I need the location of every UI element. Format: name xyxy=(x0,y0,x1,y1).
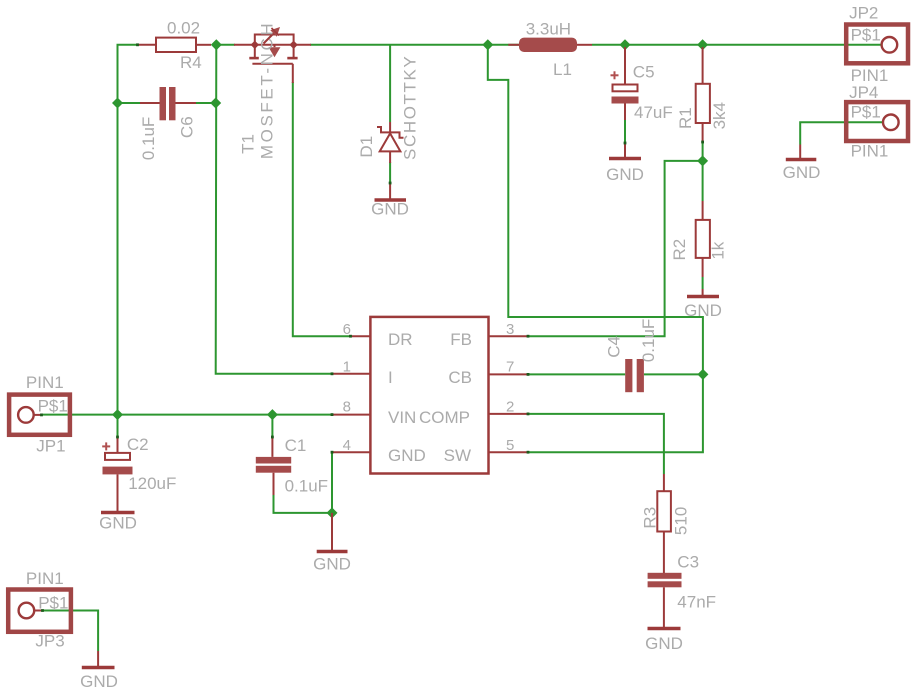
connector JP3 xyxy=(8,569,71,651)
svg-text:C4: C4 xyxy=(605,336,624,358)
wire GND pin 4 down xyxy=(331,452,333,513)
svg-text:R3: R3 xyxy=(640,507,659,529)
svg-text:P$1: P$1 xyxy=(851,103,881,122)
capacitor C6 xyxy=(140,87,196,120)
inductor L1 xyxy=(508,38,592,52)
wire R3 bottom to C3 xyxy=(663,532,665,574)
junction C4 right / SW xyxy=(697,369,708,380)
svg-text:P$1: P$1 xyxy=(38,397,68,416)
svg-text:47nF: 47nF xyxy=(677,593,716,612)
svg-text:5: 5 xyxy=(506,437,514,454)
svg-text:COMP: COMP xyxy=(419,408,470,427)
svg-text:JP1: JP1 xyxy=(36,437,65,456)
svg-text:JP3: JP3 xyxy=(35,632,64,651)
resistor R2 xyxy=(696,201,710,277)
capacitor C3 xyxy=(648,573,682,588)
wire R4 node down to I pin 1 xyxy=(216,45,332,374)
ground JP3 xyxy=(97,651,99,666)
wire R4 to MOSFET xyxy=(216,44,235,46)
transistor T1 (MOSFET-NCH) xyxy=(234,27,311,83)
svg-text:GND: GND xyxy=(645,634,683,653)
ground R2 xyxy=(687,295,719,299)
connector JP4 xyxy=(846,83,908,161)
svg-text:3.3uH: 3.3uH xyxy=(526,20,571,39)
wire C1 bottom to GND junction xyxy=(274,495,333,513)
svg-text:C6: C6 xyxy=(178,116,197,138)
svg-text:510: 510 xyxy=(672,507,691,535)
capacitor C4 xyxy=(625,359,644,392)
svg-text:C3: C3 xyxy=(677,553,699,572)
wire MOSFET to L1 xyxy=(310,44,519,46)
wire FB pin 3 to divider junction xyxy=(528,161,703,336)
junction R1 top xyxy=(697,39,708,50)
wire JP4 to GND xyxy=(800,122,883,144)
svg-text:C1: C1 xyxy=(285,436,307,455)
wire R1 bottom green xyxy=(702,142,704,161)
svg-text:R1: R1 xyxy=(676,107,695,129)
resistor R4 xyxy=(138,38,212,52)
svg-text:JP4: JP4 xyxy=(849,83,878,102)
svg-text:C5: C5 xyxy=(633,63,655,82)
svg-text:1: 1 xyxy=(343,359,351,376)
wire C2 top stub green xyxy=(117,415,119,437)
junction C6 left xyxy=(112,98,123,109)
svg-text:1k: 1k xyxy=(709,241,728,259)
svg-text:0.1uF: 0.1uF xyxy=(285,477,328,496)
svg-text:47uF: 47uF xyxy=(634,103,673,122)
junction R4 right xyxy=(211,39,222,50)
pin 8 VIN stub xyxy=(332,414,370,416)
wire top-left corner to R4 xyxy=(118,45,138,415)
svg-text:CB: CB xyxy=(448,368,472,387)
wire C6 left xyxy=(118,102,141,104)
ground net C1/pin4 xyxy=(331,513,333,550)
wire joints (pin tips) xyxy=(527,335,530,338)
pin 2 COMP stub xyxy=(489,413,529,415)
svg-text:GND: GND xyxy=(313,555,351,574)
svg-text:VIN: VIN xyxy=(388,408,416,427)
svg-text:FB: FB xyxy=(450,330,472,349)
wire R2 top green xyxy=(702,161,704,201)
wire C4 right to SW vertical xyxy=(644,373,703,375)
svg-text:GND: GND xyxy=(99,514,137,533)
plus sign C2 xyxy=(102,442,110,450)
svg-text:D1: D1 xyxy=(357,136,376,158)
junction R1-R2 divider xyxy=(697,155,708,166)
svg-text:120uF: 120uF xyxy=(128,474,176,493)
svg-text:0.1uF: 0.1uF xyxy=(639,319,658,362)
junction SW node xyxy=(482,39,493,50)
svg-text:L1: L1 xyxy=(553,60,572,79)
pin 5 SW stub xyxy=(489,451,529,453)
pin 6 DR stub xyxy=(351,335,371,337)
svg-text:SCHOTTKY: SCHOTTKY xyxy=(401,55,420,160)
wire L1 to JP2 xyxy=(592,44,882,46)
junction C6 right xyxy=(210,98,221,109)
wire COMP pin 2 to R3 xyxy=(528,414,664,474)
svg-text:P$1: P$1 xyxy=(851,25,881,44)
svg-text:JP2: JP2 xyxy=(849,4,878,23)
svg-text:C2: C2 xyxy=(127,435,149,454)
pin 1 I stub xyxy=(332,373,370,375)
ground C2 xyxy=(101,511,135,515)
resistor R3 xyxy=(657,474,671,532)
svg-text:8: 8 xyxy=(343,398,351,415)
capacitor C2 polarized xyxy=(103,437,133,511)
svg-text:2: 2 xyxy=(506,398,514,415)
svg-text:SW: SW xyxy=(444,446,471,465)
op-amp U1 IC box xyxy=(370,317,488,474)
junction JP1-VIN xyxy=(112,409,123,420)
svg-text:GND: GND xyxy=(371,200,409,219)
svg-text:7: 7 xyxy=(506,359,514,376)
wire SW node drop to pin 5 xyxy=(488,45,703,452)
wire C6 right xyxy=(196,102,216,104)
wire D1 anode green xyxy=(389,162,391,184)
capacitor C1 xyxy=(256,457,291,473)
wire D1 cathode from SW wire xyxy=(389,45,391,122)
svg-text:4: 4 xyxy=(343,437,351,454)
pin 4 GND stub xyxy=(332,451,370,453)
svg-text:PIN1: PIN1 xyxy=(851,142,889,161)
connector JP2 xyxy=(846,4,908,86)
ground C5 xyxy=(609,157,641,161)
junction C1 top xyxy=(267,409,278,420)
ground JP4 xyxy=(799,145,801,159)
svg-text:GND: GND xyxy=(80,672,118,691)
svg-text:PIN1: PIN1 xyxy=(26,373,64,392)
svg-text:GND: GND xyxy=(783,163,821,182)
svg-text:DR: DR xyxy=(388,330,413,349)
wire MOSFET gate to DR pin 6 xyxy=(293,82,351,336)
wire C5 branch green xyxy=(624,120,626,143)
svg-text:R2: R2 xyxy=(670,239,689,261)
junction C1 bottom GND xyxy=(327,507,338,518)
wire CB pin 7 to C4 left xyxy=(528,373,625,375)
wire JP1 to VIN pin 8 xyxy=(41,414,332,416)
diode D1 (schottky) xyxy=(377,122,404,199)
svg-text:T1: T1 xyxy=(239,134,258,154)
wire JP3 to GND xyxy=(42,611,98,652)
pin 7 CB stub xyxy=(489,373,529,375)
ground C3 xyxy=(648,627,681,631)
svg-text:GND: GND xyxy=(684,301,722,320)
connector JP1 xyxy=(9,373,70,456)
svg-text:0.1uF: 0.1uF xyxy=(139,117,158,160)
svg-text:MOSFET-NCH: MOSFET-NCH xyxy=(258,21,277,159)
ground D1 xyxy=(375,198,407,202)
capacitor C5 xyxy=(612,47,639,157)
wire C1 top stub green xyxy=(271,415,273,437)
plus sign C5 xyxy=(611,71,619,79)
svg-text:3k4: 3k4 xyxy=(710,102,729,129)
svg-text:0.02: 0.02 xyxy=(167,19,200,38)
junction C5 top xyxy=(620,39,631,50)
svg-text:GND: GND xyxy=(606,165,644,184)
svg-text:PIN1: PIN1 xyxy=(26,569,64,588)
resistor R1 xyxy=(696,47,710,142)
svg-text:R4: R4 xyxy=(180,53,202,72)
svg-text:I: I xyxy=(388,368,393,387)
pin 3 FB stub xyxy=(489,335,529,337)
svg-text:GND: GND xyxy=(388,446,426,465)
svg-text:3: 3 xyxy=(506,321,514,338)
